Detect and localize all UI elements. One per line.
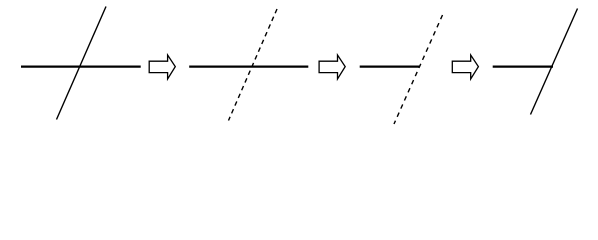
step 2: horizontal line (189, 65, 308, 67)
step 4: solid diagonal line (531, 9, 578, 115)
step 2: dashed diagonal line crossing (229, 9, 278, 121)
arrow 3 (hollow block arrow) (452, 55, 478, 79)
step 3: horizontal line (right half trimmed) (360, 65, 420, 67)
step 1: solid diagonal line crossing (57, 7, 107, 120)
step 1: horizontal line (21, 65, 141, 67)
arrow 2 (hollow block arrow) (319, 55, 345, 79)
arrow 1 (hollow block arrow) (149, 55, 175, 79)
step 4: horizontal line ending at diagonal (493, 65, 553, 67)
step 3: dashed diagonal line (394, 15, 443, 124)
